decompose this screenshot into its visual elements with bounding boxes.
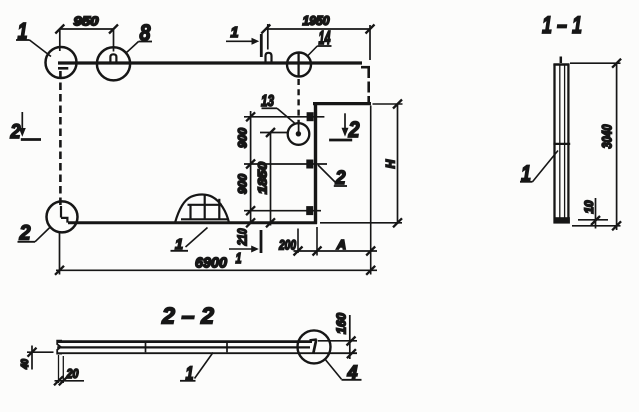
svg-text:900: 900: [238, 173, 250, 194]
svg-text:3040: 3040: [600, 124, 615, 148]
svg-text:1950: 1950: [303, 14, 330, 28]
svg-text:Н: Н: [384, 159, 398, 168]
svg-text:900: 900: [238, 127, 250, 148]
svg-text:40: 40: [19, 359, 31, 370]
svg-text:1850: 1850: [258, 161, 270, 194]
svg-text:2 – 2: 2 – 2: [161, 303, 214, 329]
svg-text:1: 1: [236, 250, 242, 267]
svg-text:2: 2: [10, 121, 21, 143]
svg-text:160: 160: [334, 312, 349, 334]
svg-text:2: 2: [348, 117, 361, 142]
svg-text:20: 20: [66, 366, 79, 381]
svg-text:210: 210: [236, 228, 250, 246]
svg-text:6900: 6900: [195, 255, 228, 272]
svg-text:A: A: [336, 237, 346, 252]
svg-text:950: 950: [74, 15, 99, 29]
svg-text:4: 4: [347, 363, 358, 383]
svg-text:200: 200: [278, 238, 296, 253]
svg-text:1: 1: [231, 24, 239, 41]
svg-text:14: 14: [319, 28, 331, 48]
svg-text:10: 10: [584, 200, 596, 214]
svg-text:1 – 1: 1 – 1: [542, 12, 582, 39]
